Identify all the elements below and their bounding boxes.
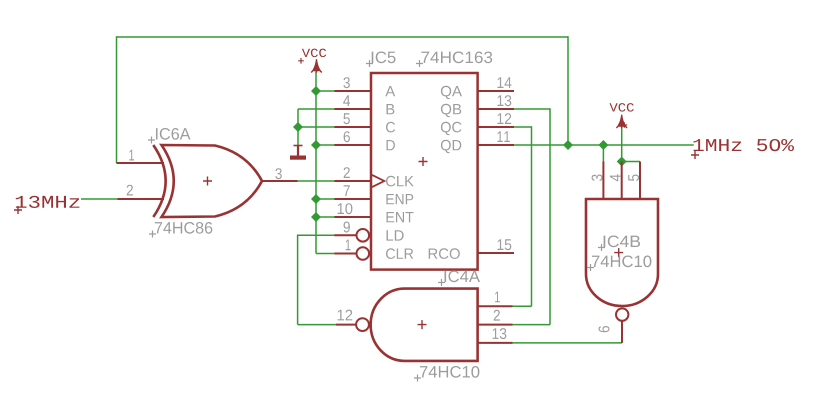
- IC4A pin number 12: [338, 310, 353, 321]
- IC5 pin 3 A stub: [334, 90, 371, 92]
- wire GND vertical x298: [297, 109, 299, 146]
- wire 13MHz input: [81, 198, 118, 200]
- IC4A pin 1 stub: [478, 305, 513, 307]
- IC5 pin number 5: [343, 113, 350, 124]
- wire pin B to GND: [298, 108, 335, 110]
- xor gate IC6A body: [162, 145, 263, 217]
- IC5 pin 6 D stub: [334, 144, 371, 146]
- xor IC6A pin 1 stub: [116, 162, 164, 164]
- wire IC4A pin2: [513, 324, 551, 326]
- IC4B name label: [604, 236, 641, 248]
- IC5 pin 15 RCO stub: [478, 252, 514, 254]
- wire QC vertical: [531, 126, 533, 306]
- VCC left origin cross: [298, 58, 304, 64]
- IC5 pin 5 C stub: [334, 126, 371, 128]
- IC5 pin number 13: [498, 95, 512, 106]
- IC5 name origin cross: [366, 60, 373, 67]
- wire QD to 1MHz label: [514, 144, 694, 146]
- IC5 pin name A: [385, 86, 395, 96]
- IC5 pin 12 QC stub: [478, 126, 514, 128]
- IC5 pin number 15: [498, 239, 512, 250]
- IC5 pin name ENP: [386, 194, 413, 204]
- IC4B value origin cross: [587, 264, 594, 271]
- junction GND pin C: [293, 122, 303, 132]
- IC4B pin number 4: [610, 174, 621, 181]
- junction VCC pin D: [311, 140, 321, 150]
- IC5 pin number 11: [497, 131, 509, 142]
- net label 1MHz 50%: [694, 139, 795, 151]
- junction VCC ENT: [311, 212, 321, 222]
- IC5 74HC163 counter box: [371, 73, 478, 270]
- IC4A pin 12 stub: [336, 324, 356, 326]
- IC5 pin number 7: [344, 185, 350, 196]
- IC5 pin number 1: [346, 240, 351, 251]
- wire feedback right vertical: [567, 36, 569, 145]
- IC4B pin number 3: [592, 175, 603, 182]
- xor pin number 2: [127, 185, 133, 196]
- GND supply symbol: [290, 146, 306, 160]
- IC5 pin name D: [387, 140, 395, 150]
- IC5 pin name LD: [387, 230, 404, 240]
- 1MHz origin cross: [691, 151, 699, 159]
- VCC text left: [302, 49, 326, 58]
- xor gate IC6A input arc: [153, 145, 165, 217]
- IC4A pin 2 stub: [478, 324, 513, 326]
- IC4A pin number 1: [495, 292, 500, 303]
- IC5 pin 4 B stub: [334, 108, 371, 110]
- IC5 pin number 6: [344, 131, 350, 142]
- IC5 pin number 12: [498, 113, 512, 124]
- IC5 pin number 9: [344, 222, 350, 233]
- junction VCC2 branch: [617, 157, 627, 167]
- wire QB out: [514, 108, 551, 110]
- IC4B origin cross: [614, 248, 623, 257]
- wire feedback left vertical: [116, 36, 118, 163]
- wire LD net to IC4A out: [298, 324, 336, 326]
- IC4B pin 5 stub: [639, 162, 641, 200]
- IC4B output bubble: [616, 308, 628, 320]
- xor pin number 3: [275, 168, 282, 179]
- wire XOR output to CLK: [297, 180, 335, 182]
- IC5 pin 14 QA stub: [478, 90, 514, 92]
- IC5 pin 10 ENT stub: [334, 216, 371, 218]
- VCC text right: [610, 103, 634, 112]
- nand gate IC4B body (vertical): [586, 199, 658, 306]
- wire feedback top horizontal: [117, 36, 569, 38]
- wire IC4A pin1: [513, 305, 532, 307]
- 13MHz origin cross: [14, 206, 22, 214]
- IC4B pin number 5: [628, 175, 639, 182]
- IC5 pin 7 ENP stub: [334, 198, 371, 200]
- junction QD IC4B pin3: [598, 140, 608, 150]
- wire VCC rail vertical x316: [315, 72, 317, 254]
- IC5 pin name QC: [441, 122, 462, 135]
- IC5 pin number 2: [344, 167, 350, 178]
- IC4A name origin cross: [438, 279, 445, 286]
- IC5 pin name CLK: [386, 176, 414, 187]
- IC4A value label 74HC10: [420, 366, 480, 378]
- VCC supply symbol left: [311, 59, 322, 72]
- IC5 pin name ENT: [387, 212, 414, 222]
- IC5 pin 2 CLK stub: [334, 180, 371, 182]
- IC5 origin cross: [419, 157, 428, 166]
- IC5 name label: [372, 52, 396, 64]
- junction feedback QD: [563, 140, 573, 150]
- IC6A value origin cross: [149, 231, 156, 238]
- wire IC4A pin13 to IC4B out: [513, 342, 623, 344]
- xor IC6A pin 2 stub: [118, 198, 165, 200]
- IC6A name origin cross: [148, 137, 155, 144]
- net label 13MHz: [16, 196, 80, 208]
- IC5 pin number 3: [343, 77, 350, 88]
- IC5 CLR bubble: [357, 247, 370, 260]
- wire VCC to CLR: [316, 253, 335, 255]
- IC4B pin number 6: [599, 326, 610, 332]
- VCC supply symbol right: [616, 115, 627, 128]
- wire LD net horizontal: [298, 234, 335, 236]
- wire pin C to GND: [298, 126, 335, 128]
- IC5 value origin cross: [416, 60, 423, 67]
- IC4A value origin cross: [414, 375, 421, 382]
- wire VCC to ENT: [316, 216, 335, 218]
- IC4A output bubble: [356, 318, 369, 331]
- IC5 pin name QD: [441, 140, 461, 153]
- IC5 pin name B: [387, 104, 395, 114]
- IC6A name label: [156, 128, 191, 140]
- IC5 pin name C: [386, 122, 395, 133]
- wire QC out: [514, 126, 532, 128]
- IC5 clock wedge: [372, 175, 384, 187]
- IC5 LD bubble: [357, 229, 370, 242]
- VCC right origin cross: [622, 122, 628, 128]
- junction VCC pin A: [311, 86, 321, 96]
- wire VCC to pin A: [316, 90, 335, 92]
- wire VCC to pin D: [316, 144, 335, 146]
- IC5 pin number 4: [343, 95, 350, 106]
- IC6A value label 74HC86: [155, 222, 213, 234]
- xor IC6A pin 3 output stub: [262, 180, 298, 182]
- IC4B pin 6 stub: [621, 321, 623, 343]
- junction VCC ENP: [311, 194, 321, 204]
- IC5 pin 1 CLR stub: [334, 253, 357, 255]
- wire LD net vertical: [297, 235, 299, 325]
- IC5 value label 74HC163: [421, 52, 492, 64]
- xor pin number 1: [129, 150, 134, 161]
- IC4B pin 3 stub: [602, 162, 604, 200]
- wire VCC2 vertical: [621, 127, 623, 162]
- IC4A origin cross: [418, 320, 427, 329]
- IC4A name label: [445, 271, 481, 283]
- nand gate IC4A body (mirrored): [371, 289, 478, 361]
- wire QB vertical: [549, 108, 551, 324]
- wire VCC to ENP: [316, 198, 335, 200]
- IC4B value label 74HC10: [592, 256, 652, 268]
- IC5 pin name CLR: [386, 248, 413, 259]
- IC5 pin number 14: [498, 77, 512, 88]
- IC4A pin number 13: [493, 328, 507, 339]
- IC5 pin 11 QD stub: [478, 144, 514, 146]
- wire QD net to IC4B pin3: [602, 145, 604, 163]
- IC5 pin name QB: [441, 104, 461, 117]
- IC5 pin 13 QB stub: [478, 108, 514, 110]
- IC5 pin number 10: [338, 203, 353, 214]
- xor IC6A origin cross: [203, 177, 212, 186]
- IC4B pin 4 stub: [621, 162, 623, 200]
- IC4B name origin cross: [598, 244, 605, 251]
- IC5 pin name QA: [441, 86, 462, 99]
- IC4A pin number 2: [494, 310, 500, 321]
- IC5 pin name RCO: [429, 248, 460, 259]
- IC5 pin 9 LD stub: [334, 234, 357, 236]
- IC4A pin 13 stub: [478, 342, 513, 344]
- wire VCC2 branch to pin5: [622, 161, 640, 163]
